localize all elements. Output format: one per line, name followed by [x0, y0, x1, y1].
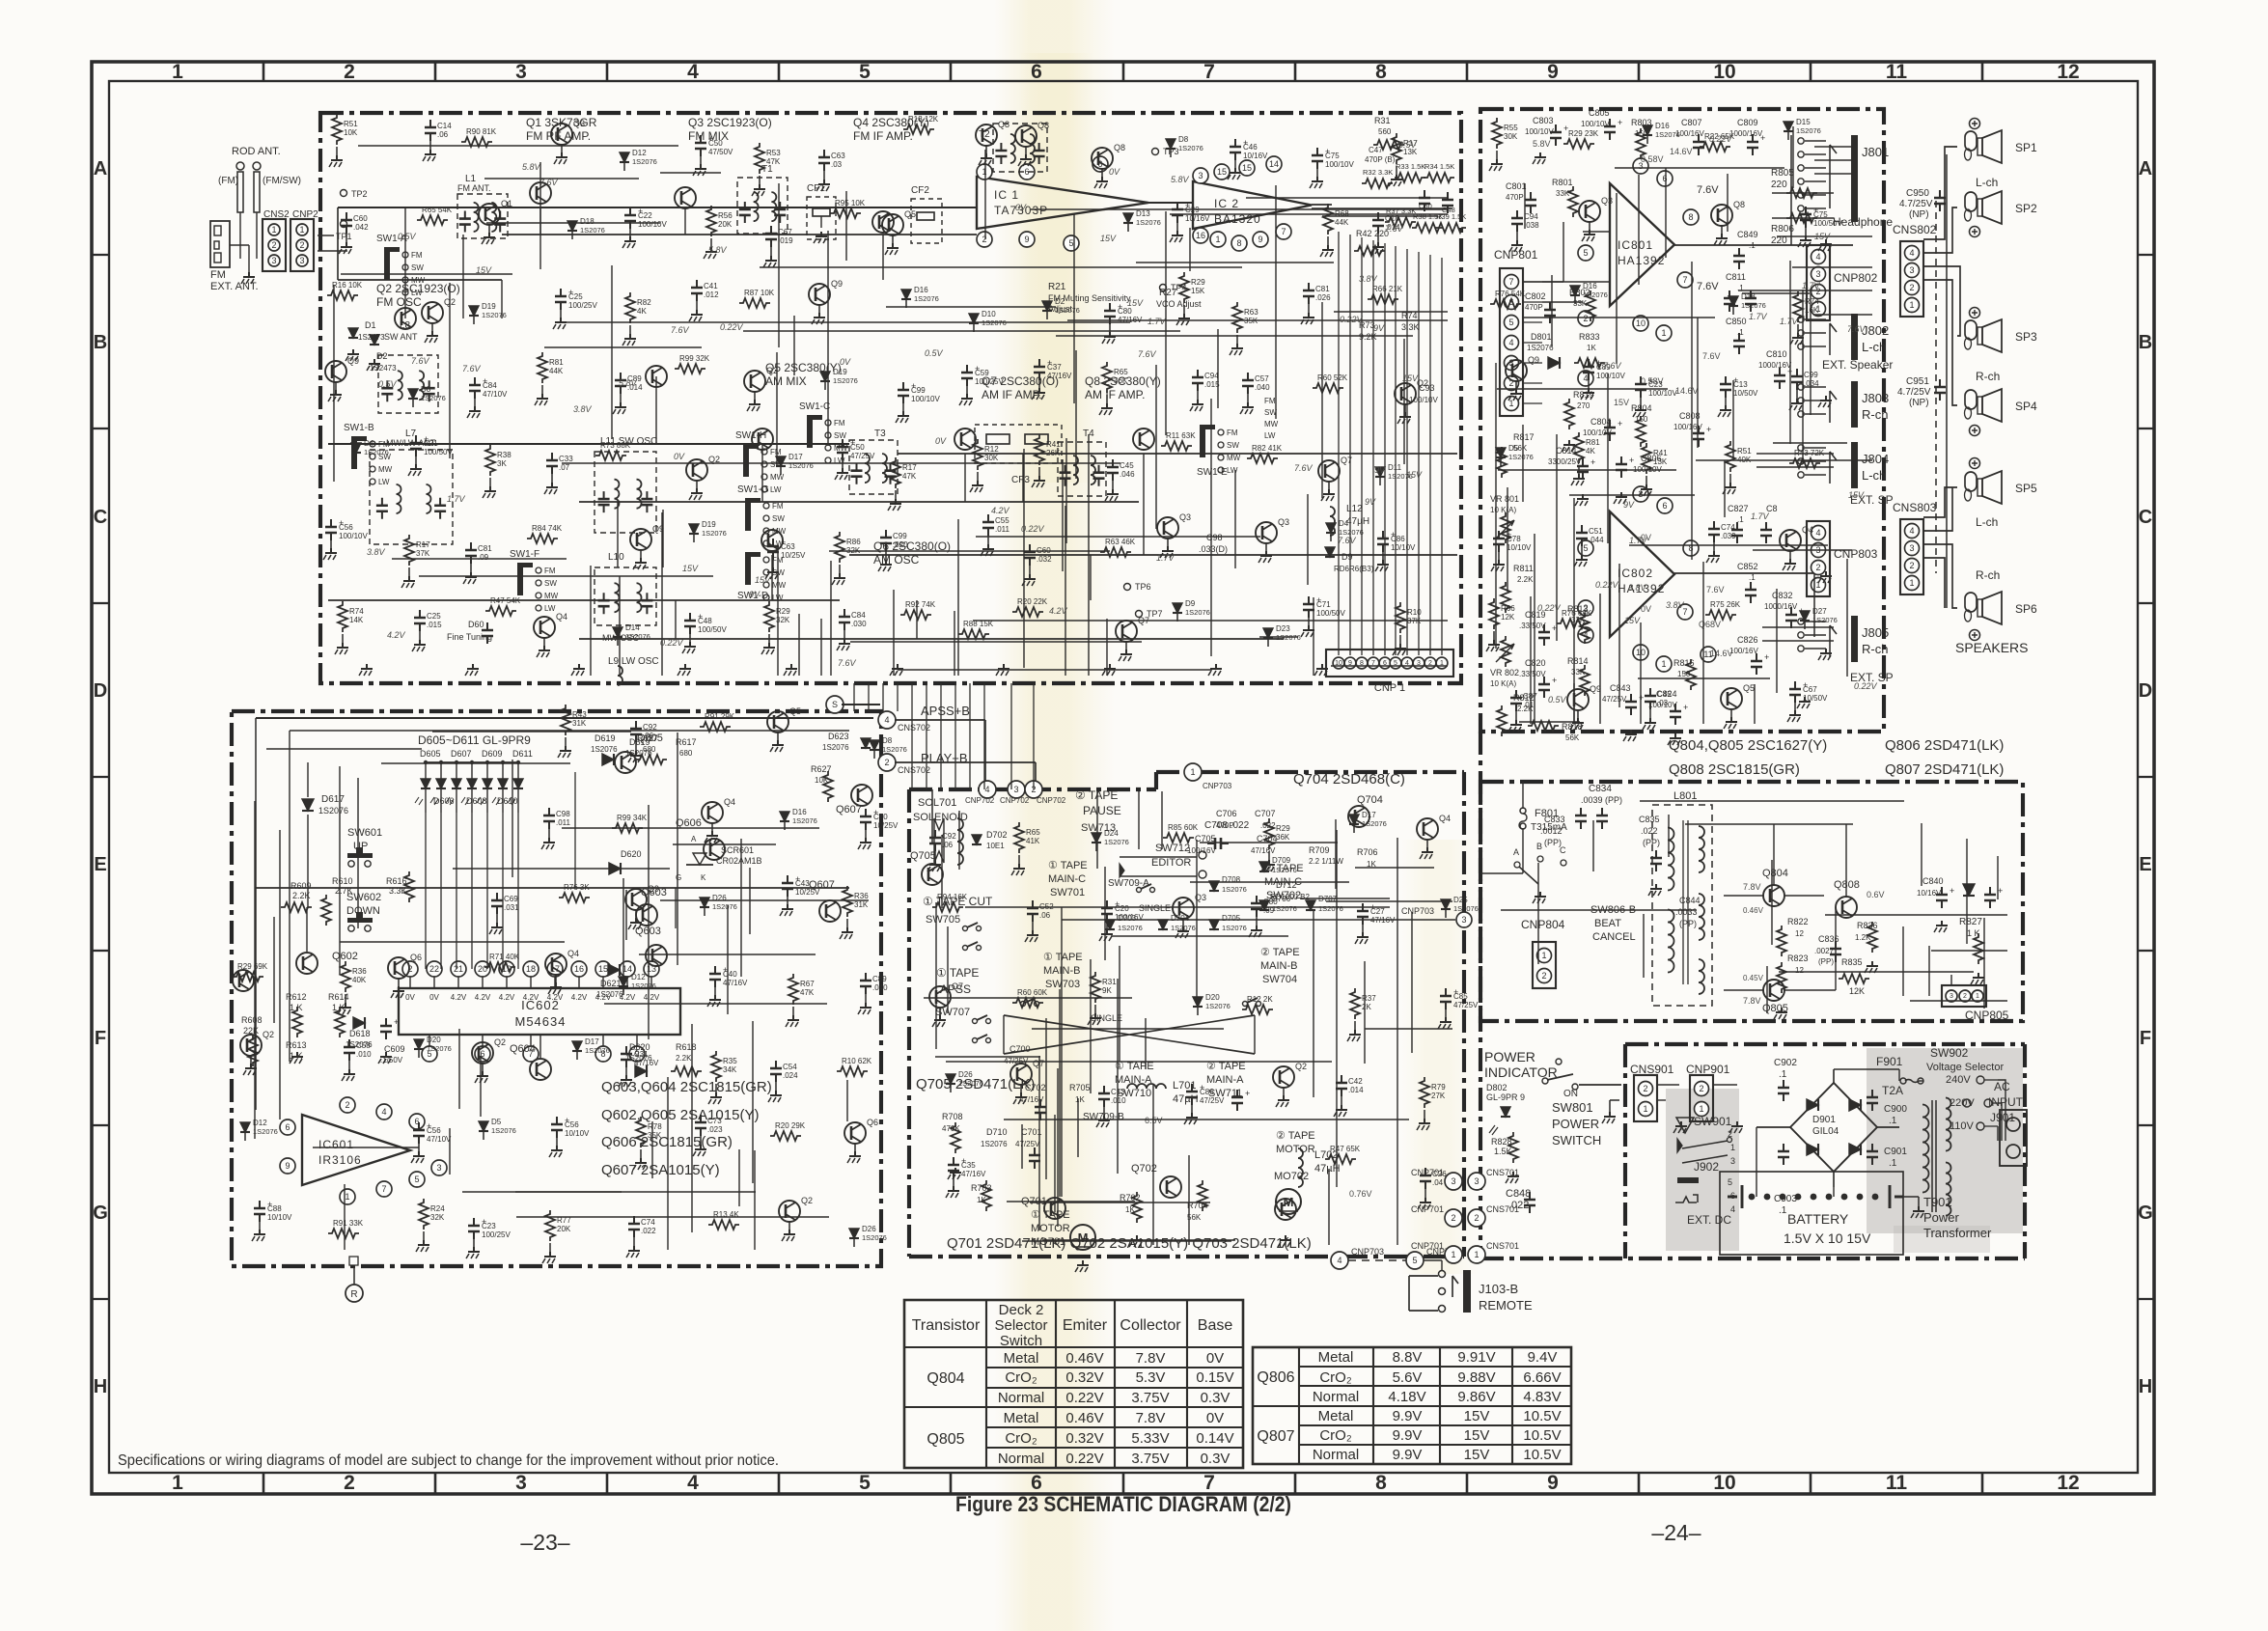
svg-text:R29 69K: R29 69K — [237, 962, 268, 971]
svg-text:Q2: Q2 — [494, 1037, 506, 1047]
svg-text:T901: T901 — [1923, 1195, 1952, 1209]
svg-text:C86: C86 — [1391, 535, 1405, 543]
svg-text:C826: C826 — [1737, 635, 1758, 645]
svg-text:560: 560 — [1378, 127, 1392, 136]
svg-text:C27: C27 — [1370, 907, 1385, 916]
svg-text:R609: R609 — [290, 881, 312, 891]
svg-text:R709: R709 — [1309, 845, 1330, 855]
svg-text:5: 5 — [859, 61, 871, 83]
svg-text:H: H — [2139, 1376, 2152, 1397]
svg-text:R814: R814 — [1567, 656, 1589, 666]
svg-text:Q7: Q7 — [1341, 456, 1352, 465]
svg-text:C802: C802 — [1525, 291, 1546, 301]
svg-text:L-ch: L-ch — [1862, 468, 1886, 483]
svg-text:+: + — [1760, 133, 1765, 143]
svg-text:CF2: CF2 — [911, 185, 929, 196]
svg-text:–24–: –24– — [1651, 1520, 1701, 1545]
svg-text:CNP702: CNP702 — [1037, 796, 1066, 805]
svg-text:0.46V: 0.46V — [1065, 1410, 1103, 1426]
svg-text:5.6V: 5.6V — [1393, 1369, 1423, 1386]
svg-text:R20 22K: R20 22K — [1017, 597, 1048, 606]
svg-text:Q6: Q6 — [867, 1118, 878, 1127]
svg-text:1S2076: 1S2076 — [591, 745, 618, 754]
svg-text:.040: .040 — [872, 983, 888, 992]
svg-text:470P: 470P — [1525, 303, 1543, 312]
svg-text:Base: Base — [1198, 1317, 1233, 1334]
svg-text:Q3: Q3 — [1179, 512, 1191, 522]
svg-text:10.5V: 10.5V — [1523, 1447, 1561, 1463]
svg-text:1S2076: 1S2076 — [318, 806, 348, 815]
svg-text:D12: D12 — [632, 149, 647, 157]
svg-text:16K: 16K — [1805, 306, 1819, 315]
svg-text:D618: D618 — [349, 1029, 371, 1038]
svg-text:MW: MW — [770, 473, 785, 482]
svg-text:R99 32K: R99 32K — [679, 354, 710, 363]
svg-text:.032: .032 — [1037, 555, 1052, 564]
svg-text:10/10V: 10/10V — [1507, 543, 1532, 552]
svg-text:CNS702: CNS702 — [898, 723, 930, 733]
svg-text:15: 15 — [1242, 163, 1252, 173]
svg-text:40K: 40K — [352, 976, 367, 984]
svg-text:R708: R708 — [942, 1112, 963, 1121]
svg-text:1: 1 — [1909, 300, 1914, 310]
svg-text:R12: R12 — [984, 445, 999, 454]
svg-text:D25: D25 — [1453, 896, 1468, 904]
svg-text:CNS702: CNS702 — [898, 765, 930, 775]
svg-text:POWER: POWER — [1484, 1049, 1535, 1064]
svg-text:.039: .039 — [1721, 532, 1736, 540]
svg-text:12: 12 — [2057, 61, 2079, 83]
svg-text:1.7V: 1.7V — [1629, 536, 1648, 545]
svg-text:15V: 15V — [1464, 1408, 1490, 1424]
svg-text:56K: 56K — [1565, 733, 1580, 742]
svg-text:0V: 0V — [840, 357, 851, 367]
svg-text:R65: R65 — [1026, 828, 1040, 837]
svg-text:.0033: .0033 — [1675, 907, 1698, 917]
svg-text:SP2: SP2 — [2015, 202, 2037, 215]
svg-text:C849: C849 — [1737, 230, 1758, 239]
svg-text:SW1-G: SW1-G — [737, 484, 769, 495]
svg-text:R10: R10 — [1407, 608, 1422, 617]
svg-text:3.8V: 3.8V — [1359, 274, 1378, 284]
svg-text:C75: C75 — [1325, 152, 1340, 160]
svg-text:C84: C84 — [851, 611, 866, 620]
svg-text:R613: R613 — [286, 1040, 307, 1050]
svg-text:3: 3 — [271, 256, 276, 265]
svg-text:4: 4 — [1815, 252, 1820, 262]
svg-text:D: D — [94, 680, 107, 702]
svg-text:7.6V: 7.6V — [539, 178, 559, 187]
svg-text:R823: R823 — [1787, 954, 1809, 963]
svg-text:100/16V: 100/16V — [1115, 913, 1144, 922]
svg-text:7.6V: 7.6V — [838, 658, 857, 668]
svg-text:R32 3.3K: R32 3.3K — [1363, 168, 1393, 177]
svg-text:1S2076: 1S2076 — [1104, 838, 1129, 846]
svg-text:R71 40K: R71 40K — [489, 953, 520, 961]
svg-text:POWER: POWER — [1552, 1117, 1599, 1131]
svg-text:Q604: Q604 — [510, 1043, 536, 1055]
svg-text:R835: R835 — [1841, 957, 1863, 967]
svg-text:14.6V: 14.6V — [1675, 386, 1699, 396]
svg-text:47/16V: 47/16V — [961, 1170, 986, 1178]
svg-text:C835: C835 — [1639, 815, 1660, 824]
svg-text:TP2: TP2 — [351, 189, 368, 199]
svg-text:1S2076: 1S2076 — [1527, 344, 1554, 352]
svg-text:DOWN: DOWN — [346, 905, 380, 917]
svg-text:4: 4 — [381, 1107, 386, 1117]
svg-text:Q807: Q807 — [1257, 1428, 1294, 1445]
svg-text:4.2V: 4.2V — [523, 993, 539, 1002]
svg-text:.023: .023 — [707, 1125, 723, 1134]
svg-text:C54: C54 — [783, 1063, 797, 1071]
svg-text:Metal: Metal — [1318, 1408, 1354, 1424]
svg-text:8.8V: 8.8V — [1393, 1349, 1423, 1366]
svg-text:33K: 33K — [1556, 189, 1570, 198]
svg-text:C18: C18 — [1385, 214, 1399, 223]
svg-text:Power: Power — [1923, 1210, 1960, 1225]
svg-text:D2: D2 — [1055, 297, 1065, 306]
svg-text:0.22V: 0.22V — [1709, 134, 1733, 144]
svg-text:J103-B: J103-B — [1479, 1282, 1518, 1296]
svg-text:Q3: Q3 — [1195, 893, 1206, 902]
svg-text:4: 4 — [1815, 528, 1820, 538]
svg-text:C810: C810 — [1766, 349, 1787, 359]
svg-text:SW ANT: SW ANT — [384, 332, 418, 342]
svg-text:.0039 (PP): .0039 (PP) — [1581, 795, 1622, 805]
svg-text:R87 10K: R87 10K — [744, 289, 775, 297]
svg-text:R41: R41 — [1046, 440, 1061, 449]
svg-text:26K: 26K — [1046, 449, 1061, 457]
svg-text:FM: FM — [544, 567, 556, 575]
svg-text:4: 4 — [1909, 248, 1914, 258]
svg-text:Q1 3SK73GR: Q1 3SK73GR — [526, 116, 597, 129]
svg-text:1K: 1K — [1587, 344, 1596, 352]
svg-text:C21: C21 — [424, 439, 438, 448]
svg-text:C843: C843 — [1610, 683, 1631, 693]
svg-text:0.58V: 0.58V — [1641, 154, 1664, 164]
svg-text:.04: .04 — [1432, 1178, 1444, 1187]
svg-text:1S2076: 1S2076 — [1118, 924, 1143, 932]
svg-text:7.6V: 7.6V — [1847, 324, 1867, 334]
svg-text:100/10V: 100/10V — [1325, 160, 1354, 169]
svg-text:.022: .022 — [1641, 826, 1658, 836]
svg-text:.33/50V: .33/50V — [1519, 622, 1546, 630]
svg-text:.038: .038 — [1524, 221, 1539, 230]
svg-text:C98: C98 — [556, 810, 570, 818]
svg-text:D4: D4 — [1339, 519, 1349, 528]
svg-text:9.88V: 9.88V — [1457, 1369, 1495, 1386]
svg-text:D623: D623 — [828, 732, 849, 741]
svg-text:6: 6 — [1662, 501, 1667, 511]
svg-text:6: 6 — [285, 1122, 290, 1132]
svg-text:15V: 15V — [476, 265, 492, 275]
svg-text:Q68V: Q68V — [1699, 620, 1721, 629]
svg-text:C45: C45 — [1120, 461, 1134, 470]
svg-text:Q4: Q4 — [724, 797, 735, 807]
svg-text:5: 5 — [1583, 248, 1588, 258]
svg-text:12: 12 — [1795, 966, 1804, 975]
svg-text:1S2076: 1S2076 — [1583, 290, 1608, 299]
svg-text:MW: MW — [772, 581, 787, 590]
svg-text:0V: 0V — [1109, 167, 1120, 177]
svg-text:Figure 23 SCHEMATIC DIAGRAM: Figure 23 SCHEMATIC DIAGRAM (2/2) — [955, 1492, 1291, 1516]
svg-text:1.7V: 1.7V — [1802, 281, 1821, 290]
svg-text:Q805: Q805 — [927, 1431, 964, 1448]
svg-text:CNP 1: CNP 1 — [1374, 682, 1405, 694]
svg-text:C63: C63 — [831, 152, 845, 160]
svg-text:Q7: Q7 — [1033, 1059, 1044, 1068]
svg-text:Q806: Q806 — [1257, 1369, 1294, 1386]
svg-text:Q9: Q9 — [347, 356, 359, 366]
svg-text:HA1392: HA1392 — [1618, 254, 1665, 267]
svg-text:FM: FM — [1227, 428, 1238, 437]
svg-text:SW: SW — [772, 514, 785, 523]
svg-text:36K: 36K — [1276, 833, 1290, 842]
svg-text:R12 2K: R12 2K — [1247, 995, 1273, 1004]
svg-text:Q3: Q3 — [1278, 517, 1289, 527]
svg-text:LW: LW — [378, 478, 390, 486]
svg-text:0.22V: 0.22V — [720, 322, 744, 332]
svg-text:R801: R801 — [1552, 178, 1573, 187]
svg-text:D611: D611 — [512, 749, 533, 759]
svg-text:5.8V: 5.8V — [619, 378, 638, 388]
svg-text:CNS701: CNS701 — [1486, 1168, 1519, 1177]
svg-text:.014: .014 — [1348, 1086, 1364, 1094]
svg-text:47/10V: 47/10V — [483, 390, 508, 399]
svg-text:R60 60K: R60 60K — [1017, 988, 1048, 997]
svg-text:FM IF AMP.: FM IF AMP. — [853, 129, 913, 143]
svg-text:.06: .06 — [437, 130, 449, 139]
svg-text:1: 1 — [299, 225, 304, 235]
svg-text:R65: R65 — [1114, 368, 1128, 376]
svg-text:R617: R617 — [676, 737, 697, 747]
svg-text:C820: C820 — [1525, 658, 1546, 668]
svg-text:Q804: Q804 — [927, 1370, 964, 1387]
svg-text:3300/25V: 3300/25V — [1548, 457, 1582, 466]
svg-text:44K: 44K — [549, 367, 564, 375]
svg-text:2: 2 — [982, 235, 986, 244]
svg-text:2: 2 — [1541, 971, 1546, 981]
svg-text:D8: D8 — [1178, 135, 1189, 144]
svg-text:9: 9 — [1024, 235, 1029, 244]
svg-text:1S2076: 1S2076 — [585, 1046, 610, 1055]
svg-text:+: + — [1683, 703, 1688, 712]
svg-text:C71: C71 — [1316, 600, 1331, 609]
svg-text:10/25V: 10/25V — [795, 888, 820, 897]
svg-text:C81: C81 — [1315, 285, 1330, 293]
svg-text:20: 20 — [478, 964, 487, 974]
svg-text:R81: R81 — [1586, 438, 1600, 447]
svg-text:5.33V: 5.33V — [1131, 1430, 1169, 1447]
svg-text:C92: C92 — [643, 723, 657, 732]
svg-text:0.6V: 0.6V — [1867, 890, 1885, 899]
svg-text:C950: C950 — [1906, 188, 1929, 199]
svg-text:D621: D621 — [600, 979, 622, 988]
svg-text:.015: .015 — [427, 621, 442, 629]
svg-text:7: 7 — [1203, 1472, 1215, 1494]
svg-text:1S2076: 1S2076 — [958, 1079, 983, 1088]
svg-text:9: 9 — [1547, 1472, 1559, 1494]
svg-text:1.7V: 1.7V — [1751, 511, 1770, 521]
svg-text:C903: C903 — [1774, 1194, 1797, 1204]
svg-text:C98: C98 — [1206, 533, 1223, 542]
svg-text:L10: L10 — [608, 552, 624, 563]
svg-text:47/16V: 47/16V — [634, 1059, 659, 1067]
svg-text:0.5V: 0.5V — [1398, 140, 1418, 150]
svg-text:2.2 1/11W: 2.2 1/11W — [1309, 857, 1343, 866]
svg-text:2: 2 — [345, 1100, 349, 1110]
svg-text:C14: C14 — [437, 122, 452, 130]
svg-text:C951: C951 — [1906, 376, 1929, 387]
svg-text:15V: 15V — [1464, 1447, 1490, 1463]
svg-text:1: 1 — [982, 167, 986, 177]
svg-text:1S2076: 1S2076 — [1272, 866, 1297, 874]
svg-text:41K: 41K — [1026, 837, 1040, 845]
svg-text:R73 88K: R73 88K — [600, 441, 631, 450]
svg-text:9: 9 — [1547, 61, 1559, 83]
svg-text:110V: 110V — [1950, 1120, 1975, 1132]
svg-text:1000/16V: 1000/16V — [1764, 602, 1798, 611]
svg-text:C801: C801 — [1506, 181, 1527, 191]
svg-text:15V: 15V — [682, 564, 699, 573]
svg-text:R53: R53 — [766, 149, 781, 157]
svg-text:R67: R67 — [800, 980, 815, 988]
svg-text:3: 3 — [1451, 1176, 1455, 1186]
svg-text:+: + — [1764, 652, 1769, 662]
svg-text:8: 8 — [1688, 212, 1693, 222]
svg-text:C80: C80 — [1118, 307, 1132, 316]
svg-text:LW: LW — [411, 289, 423, 297]
svg-text:J803: J803 — [1862, 391, 1889, 405]
svg-text:Q3: Q3 — [1601, 196, 1613, 206]
svg-text:32K: 32K — [430, 1213, 445, 1222]
svg-text:7.6V: 7.6V — [1138, 349, 1157, 359]
svg-text:G: G — [93, 1203, 108, 1224]
svg-text:35K: 35K — [648, 1131, 662, 1140]
svg-text:① TAPE: ① TAPE — [936, 966, 979, 980]
svg-text:FM: FM — [411, 251, 423, 260]
svg-text:SPEAKERS: SPEAKERS — [1955, 640, 2028, 655]
svg-text:R84 74K: R84 74K — [532, 524, 563, 533]
svg-text:C50: C50 — [708, 139, 723, 148]
svg-text:D23: D23 — [1276, 624, 1290, 633]
svg-text:C48: C48 — [698, 617, 712, 625]
svg-text:SW709-A: SW709-A — [1108, 878, 1149, 889]
svg-text:+: + — [1998, 886, 2003, 896]
svg-text:R47 65K: R47 65K — [1330, 1145, 1361, 1153]
svg-text:20K: 20K — [557, 1225, 571, 1233]
svg-text:R16 10K: R16 10K — [332, 281, 363, 290]
svg-text:D4: D4 — [364, 439, 374, 448]
svg-text:.031: .031 — [504, 903, 519, 912]
svg-text:CrO₂: CrO₂ — [1005, 1430, 1037, 1447]
svg-text:AC: AC — [1994, 1080, 2010, 1093]
svg-text:R76 3K: R76 3K — [564, 883, 590, 892]
svg-text:7.6V: 7.6V — [1385, 224, 1404, 234]
svg-text:Selector: Selector — [994, 1317, 1047, 1334]
svg-text:.06: .06 — [1039, 911, 1051, 920]
svg-text:R17: R17 — [416, 540, 430, 549]
svg-text:SP5: SP5 — [2015, 482, 2037, 495]
svg-text:1S2076: 1S2076 — [914, 294, 939, 303]
svg-text:Switch: Switch — [1000, 1333, 1042, 1349]
svg-text:L-ch: L-ch — [1862, 340, 1886, 354]
svg-text:7: 7 — [1203, 61, 1215, 83]
svg-text:47µH: 47µH — [1346, 516, 1369, 527]
svg-text:C52: C52 — [1039, 902, 1054, 911]
svg-text:C42: C42 — [1348, 1077, 1363, 1086]
svg-text:2.2K: 2.2K — [292, 891, 311, 900]
svg-text:Q8: Q8 — [1733, 200, 1745, 209]
svg-text:D: D — [2139, 680, 2152, 702]
svg-text:1S2076: 1S2076 — [882, 745, 907, 754]
svg-text:15V: 15V — [1814, 232, 1831, 241]
svg-text:SW1-C: SW1-C — [799, 401, 830, 412]
svg-text:100/16V: 100/16V — [1187, 846, 1216, 855]
svg-text:Q2: Q2 — [263, 1030, 274, 1039]
svg-text:.010: .010 — [1111, 1096, 1126, 1105]
svg-text:9V: 9V — [1374, 465, 1386, 475]
svg-text:0V: 0V — [405, 993, 415, 1002]
svg-text:10/25V: 10/25V — [781, 551, 806, 560]
svg-text:C26: C26 — [1432, 1170, 1447, 1178]
svg-text:D24: D24 — [1104, 829, 1119, 838]
svg-text:D18: D18 — [580, 217, 595, 226]
svg-text:J804: J804 — [1862, 452, 1889, 466]
svg-text:C807: C807 — [1681, 118, 1702, 127]
svg-text:SW: SW — [834, 431, 846, 440]
svg-text:C58: C58 — [356, 1041, 371, 1050]
svg-text:C86: C86 — [1200, 1088, 1214, 1096]
svg-text:0.22V: 0.22V — [1340, 315, 1364, 324]
svg-text:9.4V: 9.4V — [1528, 1349, 1558, 1366]
svg-text:.020: .020 — [893, 540, 908, 549]
svg-text:C: C — [1560, 845, 1566, 855]
svg-text:R86: R86 — [846, 538, 861, 546]
svg-text:10/16V: 10/16V — [1243, 152, 1268, 160]
svg-text:15V: 15V — [1614, 398, 1629, 407]
svg-text:R36: R36 — [352, 967, 367, 976]
svg-text:C75: C75 — [1813, 210, 1828, 219]
svg-text:47µH: 47µH — [1173, 1093, 1199, 1105]
svg-text:D27: D27 — [1812, 607, 1827, 616]
svg-text:C40: C40 — [723, 970, 737, 979]
svg-text:47/25V: 47/25V — [1453, 1001, 1479, 1009]
svg-text:100/10V: 100/10V — [638, 220, 667, 229]
svg-text:R35: R35 — [723, 1057, 737, 1065]
svg-text:Q804: Q804 — [1762, 868, 1788, 879]
svg-text:+: + — [1618, 419, 1622, 428]
svg-text:–23–: –23– — [520, 1530, 569, 1555]
svg-text:AM IF AMP.: AM IF AMP. — [982, 388, 1041, 401]
svg-text:Q2: Q2 — [1417, 378, 1428, 388]
svg-text:7: 7 — [1508, 277, 1513, 287]
svg-text:.012: .012 — [704, 290, 719, 299]
svg-text:D16: D16 — [914, 286, 928, 294]
svg-text:FM: FM — [834, 419, 845, 428]
svg-text:0.22V: 0.22V — [1065, 1390, 1103, 1406]
svg-text:C609: C609 — [384, 1044, 405, 1054]
svg-text:10K: 10K — [344, 128, 358, 137]
svg-text:8: 8 — [1236, 238, 1241, 248]
svg-text:1S2076: 1S2076 — [1812, 616, 1838, 624]
svg-text:D14: D14 — [625, 623, 640, 632]
svg-text:2.2K: 2.2K — [676, 1054, 692, 1063]
svg-text:1S2076: 1S2076 — [1055, 306, 1080, 315]
svg-text:7: 7 — [1682, 275, 1687, 285]
svg-text:C844: C844 — [1679, 896, 1701, 905]
svg-text:2: 2 — [1474, 1213, 1479, 1223]
